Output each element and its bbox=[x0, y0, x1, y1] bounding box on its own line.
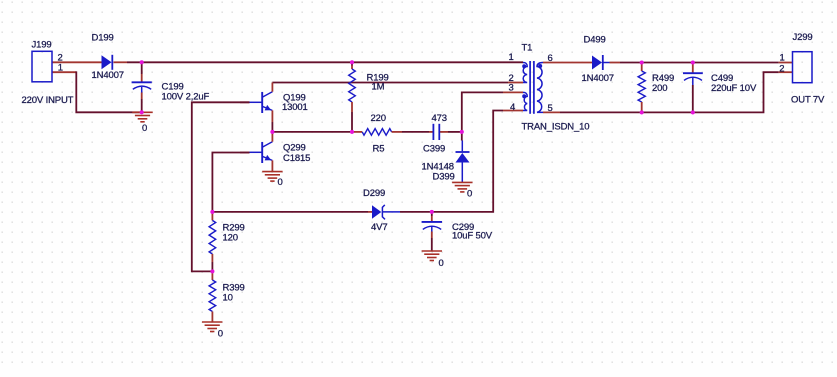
value 220uF 10V of C499 bbox=[711, 83, 757, 94]
svg-text:TRAN_ISDN_10: TRAN_ISDN_10 bbox=[522, 122, 590, 133]
wire node B to C399 bbox=[402, 131, 429, 133]
svg-text:200: 200 bbox=[652, 83, 667, 94]
svg-text:1N4007: 1N4007 bbox=[92, 70, 124, 81]
node junction (C499 bottom) bbox=[691, 110, 695, 114]
node B junction (emitters/R199/R5) bbox=[270, 130, 354, 134]
node junction (R499 top) bbox=[640, 60, 644, 64]
node A junction (D199/C199) bbox=[140, 60, 144, 64]
svg-text:1: 1 bbox=[58, 63, 63, 74]
svg-text:D399: D399 bbox=[433, 172, 455, 183]
svg-text:J199: J199 bbox=[32, 39, 52, 50]
svg-text:T1: T1 bbox=[522, 42, 533, 53]
node junction (R199 top) bbox=[350, 60, 354, 64]
value 1N4007 of D199 bbox=[92, 70, 124, 81]
label R399 bbox=[223, 283, 245, 294]
wire node C to T1 pin 3 bbox=[462, 92, 523, 131]
ground 0 (C299) bbox=[422, 251, 442, 261]
pin 2 label J299 bbox=[779, 63, 784, 74]
label OUT 7V bbox=[791, 95, 825, 106]
wire J199 pin1 down to ground rail bbox=[52, 71, 142, 112]
pin 1 label J299 bbox=[780, 52, 785, 63]
wire collector bus to T1 pin 2 bbox=[272, 82, 523, 84]
value 220 of R5 bbox=[371, 113, 386, 124]
pin 3 label T1 bbox=[509, 83, 514, 94]
pin 1 label J199 bbox=[58, 63, 63, 74]
label 0 Q299 ground bbox=[278, 177, 283, 188]
wire Q199 base feedback bbox=[192, 102, 250, 271]
value 1N4007 of D499 bbox=[582, 73, 614, 84]
node C junction (C399/D399) bbox=[460, 130, 464, 134]
pin 1 label T1 bbox=[509, 52, 514, 63]
svg-text:OUT 7V: OUT 7V bbox=[791, 95, 825, 106]
diode D199 bbox=[102, 55, 113, 70]
svg-text:220V INPUT: 220V INPUT bbox=[22, 95, 74, 106]
capacitor C299 bbox=[422, 212, 442, 251]
label D499 bbox=[584, 34, 606, 45]
wire D199 cathode to node A bbox=[114, 61, 524, 63]
svg-text:0: 0 bbox=[278, 177, 283, 188]
svg-text:0: 0 bbox=[439, 258, 444, 269]
label D399 bbox=[433, 172, 455, 183]
svg-text:R5: R5 bbox=[373, 144, 385, 155]
svg-text:473: 473 bbox=[432, 113, 447, 124]
svg-text:1: 1 bbox=[509, 52, 514, 63]
label C499 bbox=[711, 73, 733, 84]
node junction (R499 bottom) bbox=[640, 110, 644, 114]
ground 0 (input) bbox=[132, 112, 152, 122]
wire Q299 base bbox=[212, 153, 249, 212]
resistor R299 bbox=[209, 212, 216, 272]
value 4V7 of D299 bbox=[371, 222, 387, 233]
value 10 of R399 bbox=[223, 293, 233, 304]
label T1 bbox=[522, 42, 533, 53]
value 200 of R499 bbox=[652, 83, 667, 94]
node junction (C499 top) bbox=[691, 60, 695, 64]
ground 0 (R399) bbox=[202, 322, 222, 332]
svg-text:13001: 13001 bbox=[282, 102, 308, 113]
svg-text:100V 2,2uF: 100V 2,2uF bbox=[162, 92, 210, 103]
label R299 bbox=[223, 223, 245, 234]
svg-text:C399: C399 bbox=[423, 144, 445, 155]
resistor R399 bbox=[209, 271, 216, 322]
svg-text:3: 3 bbox=[509, 83, 514, 94]
wire Q199 emitter node bbox=[272, 122, 352, 132]
svg-text:1: 1 bbox=[780, 52, 785, 63]
pin 2 label J199 bbox=[58, 53, 63, 64]
value 1N4148 of D399 bbox=[422, 162, 454, 173]
svg-text:0: 0 bbox=[467, 189, 472, 200]
wire J199 pin2 to D199 bbox=[52, 61, 102, 63]
svg-text:1N4007: 1N4007 bbox=[582, 73, 614, 84]
transistor Q199 bbox=[250, 83, 273, 123]
wire D499 to J299 pin 1 bbox=[610, 62, 793, 64]
label D299 bbox=[363, 188, 385, 199]
connector J299 bbox=[793, 52, 813, 83]
transformer T1 bbox=[522, 61, 543, 114]
svg-text:D199: D199 bbox=[92, 33, 114, 44]
label 0 C299 ground bbox=[439, 258, 444, 269]
label 0 D399 ground bbox=[467, 189, 472, 200]
label 220V INPUT bbox=[22, 95, 74, 106]
svg-text:D299: D299 bbox=[363, 188, 385, 199]
value 13001 of Q199 bbox=[282, 102, 308, 113]
value 1M of R199 bbox=[372, 82, 385, 93]
label C199 bbox=[162, 82, 184, 93]
value 120 of R299 bbox=[223, 233, 238, 244]
svg-text:10: 10 bbox=[223, 293, 233, 304]
svg-text:2: 2 bbox=[779, 63, 784, 74]
label 0 input ground bbox=[142, 123, 147, 134]
svg-text:D499: D499 bbox=[584, 34, 606, 45]
wire C299 node to T1 pin 4 bbox=[432, 111, 523, 212]
node junction (R299/R399) bbox=[210, 269, 214, 273]
value 100V 2,2uF of C199 bbox=[162, 92, 210, 103]
svg-text:0: 0 bbox=[142, 123, 147, 134]
label J199 bbox=[32, 39, 52, 50]
node junction (input ground) bbox=[140, 110, 144, 114]
label Q199 bbox=[283, 93, 306, 104]
ground 0 (D399) bbox=[452, 182, 472, 192]
label Q299 bbox=[283, 143, 306, 154]
svg-text:220uF 10V: 220uF 10V bbox=[711, 83, 757, 94]
wire C399 to node C bbox=[448, 131, 462, 133]
node junction (Q299 base/R299) bbox=[210, 210, 214, 214]
label C399 bbox=[423, 144, 445, 155]
capacitor C199 bbox=[132, 82, 152, 92]
svg-text:120: 120 bbox=[223, 233, 238, 244]
svg-text:4: 4 bbox=[510, 102, 515, 113]
svg-text:1M: 1M bbox=[372, 82, 385, 93]
wire D299 to C299 node bbox=[400, 211, 432, 213]
node junction (D299/C299) bbox=[430, 210, 434, 214]
diode D399 bbox=[456, 132, 470, 183]
diode D299 bbox=[368, 205, 400, 220]
value 473 of C399 bbox=[432, 113, 447, 124]
resistor R499 bbox=[638, 63, 645, 113]
label 0 R399 ground bbox=[218, 329, 223, 340]
svg-text:10uF 50V: 10uF 50V bbox=[452, 231, 493, 242]
wire T1 pin 6 to D499 bbox=[543, 62, 592, 64]
resistor R5 bbox=[352, 129, 402, 136]
label R5 bbox=[373, 144, 385, 155]
svg-text:220: 220 bbox=[371, 113, 386, 124]
label R499 bbox=[652, 73, 674, 84]
wire C199 branch bbox=[141, 62, 143, 112]
pin 6 label T1 bbox=[548, 53, 553, 64]
ground 0 (Q299 emitter) bbox=[262, 172, 282, 182]
svg-text:4V7: 4V7 bbox=[371, 222, 387, 233]
label R199 bbox=[367, 73, 389, 84]
pin 5 label T1 bbox=[548, 103, 553, 114]
resistor R199 bbox=[349, 62, 356, 132]
value C1815 of Q299 bbox=[283, 153, 310, 164]
transistor Q299 bbox=[250, 132, 273, 172]
svg-text:6: 6 bbox=[548, 53, 553, 64]
wire bottom node to D299 bbox=[212, 211, 368, 213]
wire T1 pin 5 bottom rail bbox=[543, 72, 793, 112]
connector J199 bbox=[32, 51, 52, 82]
diode D499 bbox=[592, 55, 610, 70]
label TRAN_ISDN_10 bbox=[522, 122, 590, 133]
capacitor C499 bbox=[683, 63, 703, 113]
capacitor C399 bbox=[429, 124, 448, 140]
pin 4 label T1 bbox=[510, 102, 515, 113]
value 10uF 50V of C299 bbox=[452, 231, 493, 242]
label J299 bbox=[793, 32, 813, 43]
pin 2 label T1 bbox=[509, 73, 514, 84]
svg-text:Q299: Q299 bbox=[283, 143, 306, 154]
svg-text:J299: J299 bbox=[793, 32, 813, 43]
svg-text:0: 0 bbox=[218, 329, 223, 340]
label D199 bbox=[92, 33, 114, 44]
svg-text:5: 5 bbox=[548, 103, 553, 114]
svg-text:C1815: C1815 bbox=[283, 153, 310, 164]
label C299 bbox=[452, 222, 474, 233]
